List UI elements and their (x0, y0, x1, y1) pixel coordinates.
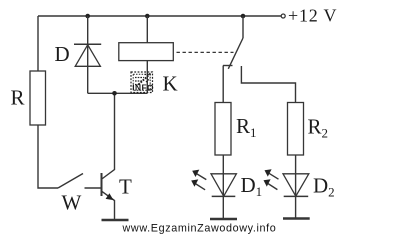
terminal +12V open circle (281, 14, 285, 18)
svg-text:D1: D1 (241, 173, 263, 199)
diode D triangle (75, 45, 100, 67)
ground LED D1 (210, 218, 237, 221)
svg-text:www.EgzaminZawodowy.info: www.EgzaminZawodowy.info (122, 223, 277, 235)
svg-text:R2: R2 (308, 115, 329, 141)
svg-text:W: W (62, 191, 82, 215)
wire coil top to rail (146, 16, 148, 43)
switch W blade (58, 174, 83, 189)
ground transistor emitter (102, 219, 129, 222)
node junction dot relay coil branch (145, 14, 150, 19)
resistor R2 (288, 103, 304, 156)
relay contact blade (228, 38, 243, 69)
node junction dot collector (112, 91, 117, 96)
LED D2 emission arrow 1 (269, 173, 279, 179)
LED D1 emission arrow 1 (197, 174, 207, 180)
transistor T emitter arrowhead (106, 193, 114, 200)
transistor T emitter lead (102, 191, 115, 219)
resistor R1 (215, 103, 231, 156)
watermark stamp INFO box (131, 72, 153, 93)
LED D1 cathode bar (212, 195, 236, 197)
wire left drop to resistor R (37, 16, 39, 71)
diode D cathode bar (74, 43, 101, 45)
LED D1 triangle (211, 174, 236, 196)
wire top rail +12V (38, 15, 281, 17)
LED D2 cathode bar (284, 195, 309, 197)
svg-text:D2: D2 (313, 174, 335, 200)
transistor T base bar (101, 173, 103, 196)
relay contact left throw tick (223, 65, 233, 67)
wire coil bottom to node (146, 61, 148, 94)
svg-text:R1: R1 (236, 114, 257, 140)
wire resistor R bottom to switch W (38, 125, 58, 188)
svg-text:K: K (163, 72, 178, 96)
svg-text:T: T (119, 175, 132, 199)
wire right throw to resistor R2 (241, 66, 295, 103)
LED D1 emission arrow 2 (195, 184, 205, 190)
relay contact pole wire (242, 16, 244, 38)
relay mechanical link dashed (177, 51, 234, 53)
relay coil K (119, 43, 174, 61)
wire R2 to LED D2 (295, 155, 297, 218)
wire switch to transistor base (85, 187, 101, 189)
LED D2 triangle (283, 174, 309, 196)
node junction dot relay contact branch (241, 14, 246, 19)
svg-text:+12 V: +12 V (288, 6, 337, 26)
node junction dot diode branch (85, 14, 90, 19)
svg-text:D: D (55, 42, 70, 66)
LED D2 emission arrow 2 (268, 183, 278, 189)
ground LED D2 (283, 217, 310, 220)
wire R1 to LED D1 (222, 155, 224, 219)
svg-text:R: R (11, 86, 25, 110)
wire diode cathode to rail (87, 16, 89, 93)
wire node diode-coil-collector (88, 92, 148, 94)
transistor T collector lead (102, 93, 115, 179)
wire left throw to resistor R1 (222, 66, 224, 103)
svg-text:INFO: INFO (132, 83, 154, 93)
resistor R (30, 71, 46, 125)
